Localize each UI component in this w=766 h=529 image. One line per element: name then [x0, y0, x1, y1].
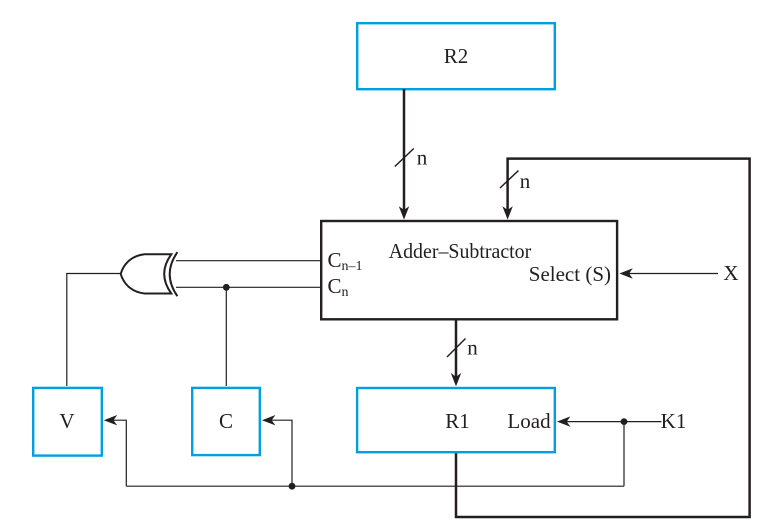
svg-text:R1: R1 — [445, 409, 470, 433]
svg-text:C: C — [219, 409, 233, 433]
svg-text:R2: R2 — [444, 44, 469, 68]
wire K1 to R1 Load — [557, 416, 662, 426]
bus-width slash n (R2 bus) — [395, 149, 414, 167]
carry flag C — [192, 388, 260, 455]
bus adder to R1 — [451, 320, 461, 386]
feedback bus: R1 bottom, around right side, into adder top — [456, 159, 750, 517]
wire K1 junction down to bottom enable wire — [623, 422, 625, 487]
bus R2 to adder — [399, 89, 409, 220]
svg-text:n: n — [417, 146, 428, 170]
svg-text:X: X — [723, 261, 738, 285]
wire load-enable into C — [262, 415, 292, 486]
adder-subtractor block U1 — [321, 221, 617, 319]
register R1 — [357, 388, 555, 452]
svg-text:Select (S): Select (S) — [529, 262, 611, 286]
svg-text:V: V — [59, 409, 74, 433]
overflow flag V — [33, 388, 102, 456]
wire load-enable into V — [104, 415, 127, 486]
bottom enable wire — [126, 485, 624, 487]
wire XOR output to V flag — [67, 274, 121, 387]
svg-text:Load: Load — [507, 409, 551, 433]
svg-text:Adder–Subtractor: Adder–Subtractor — [389, 239, 532, 263]
bus-width slash n (feedback bus) — [500, 171, 519, 189]
wire Cn from adder to XOR input — [176, 286, 320, 288]
junction dot C enable / bottom wire — [289, 483, 296, 490]
junction dot on Cn wire — [223, 284, 230, 291]
arrowhead feedback bus into adder — [502, 206, 512, 219]
register R2 — [357, 23, 555, 89]
svg-text:n: n — [520, 169, 531, 193]
bus-width slash n (adder-R1 bus) — [447, 339, 466, 358]
wire Cn-1 from adder to XOR input — [176, 260, 320, 262]
svg-text:K1: K1 — [661, 409, 687, 433]
wire X to Select input — [619, 268, 718, 278]
wire junction to C flag — [225, 287, 227, 386]
junction dot K1 — [621, 418, 628, 425]
svg-text:n: n — [467, 336, 478, 360]
XOR gate (left-pointing) — [121, 252, 178, 296]
